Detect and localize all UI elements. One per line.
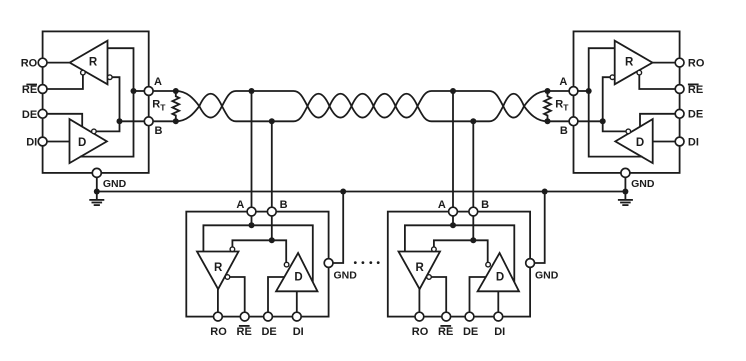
stub-right wire GND pin to ground bus — [535, 192, 545, 264]
svg-text:RE: RE — [237, 326, 252, 338]
twisted pair twist 5 — [374, 94, 396, 118]
svg-text:DI: DI — [26, 137, 37, 149]
right RT bottom junction — [545, 118, 551, 124]
svg-text:R: R — [415, 262, 424, 274]
stub-left wire B net (inverting input / driver inverting output) — [232, 240, 286, 262]
right wire node B to B net — [578, 120, 603, 122]
svg-text:B: B — [481, 199, 489, 211]
left pin A — [144, 87, 153, 96]
twisted pair twist 7 — [503, 94, 524, 118]
right receiver enable bubble — [637, 70, 642, 75]
twisted pair right fan-in — [524, 91, 548, 121]
svg-text:DE: DE — [688, 109, 703, 121]
stub-right node A junction — [450, 222, 456, 228]
stub-right ground bus junction — [542, 189, 548, 195]
stub-left pin A — [247, 207, 256, 216]
stub-right wire bus A tap — [452, 91, 454, 207]
svg-text:RE: RE — [22, 84, 37, 96]
svg-text:DE: DE — [463, 326, 478, 338]
stub-right bus A tap junction — [450, 88, 456, 94]
stub-right driver D — [478, 253, 519, 291]
ground bus wire — [97, 191, 626, 193]
stub-left receiver R — [197, 252, 239, 290]
svg-text:GND: GND — [535, 269, 559, 281]
twisted pair twist 6 — [396, 94, 418, 118]
svg-text:D: D — [78, 137, 86, 149]
stub-left wire DE to driver enable — [268, 277, 284, 312]
stub-right receiver inverting input bubble — [432, 247, 437, 252]
stub-left pin GND — [324, 259, 333, 268]
stub-right wire DI to driver input — [497, 291, 499, 312]
stub-left driver D — [276, 253, 317, 291]
right pin DI — [675, 137, 684, 146]
svg-text:B: B — [155, 125, 163, 137]
stub-left transceiver box — [186, 212, 328, 317]
left termination resistor RT — [172, 91, 179, 121]
svg-text:GND: GND — [103, 178, 127, 190]
ellipsis (more stations) — [354, 261, 380, 264]
stub-left wire GND pin to ground bus — [333, 192, 343, 264]
right pin RO — [675, 58, 684, 67]
twisted pair twist 1 — [199, 94, 222, 118]
stub-right wire bus B tap — [472, 121, 474, 207]
right node B junction — [600, 118, 606, 124]
left driver inverting output bubble — [92, 129, 97, 134]
stub-left wire DI to driver input — [296, 291, 298, 312]
stub-left driver inverting output bubble — [284, 262, 289, 267]
left pin DE — [38, 109, 47, 118]
svg-text:A: A — [559, 76, 567, 88]
svg-text:B: B — [280, 199, 288, 211]
stub-right RE overline — [440, 325, 451, 327]
stub-right transceiver box — [388, 212, 530, 317]
left wire DE to driver enable — [43, 114, 83, 127]
left driver D — [70, 119, 107, 163]
stub-left pin DI — [292, 312, 301, 321]
svg-text:RO: RO — [21, 58, 38, 70]
svg-text:DE: DE — [22, 109, 37, 121]
stub-left pin B — [267, 207, 276, 216]
stub-right receiver R — [399, 252, 441, 290]
svg-text:B: B — [560, 125, 568, 137]
stub-left wire bus B tap — [271, 121, 273, 207]
right wire RO to receiver output — [653, 62, 680, 64]
left wire node A to receiver input — [134, 90, 145, 92]
twisted pair opening at second stub — [418, 91, 504, 121]
left earth ground symbol — [89, 200, 104, 205]
stub-left wire RO to receiver output — [217, 289, 219, 312]
svg-text:DI: DI — [293, 326, 304, 338]
twisted pair twist 3 — [330, 94, 352, 118]
stub-left node B junction — [269, 237, 275, 243]
stub-left wire A net (receiver input / driver output) — [203, 225, 312, 282]
stub-right pin GND — [526, 259, 535, 268]
right wire RE to receiver enable — [639, 75, 679, 89]
svg-text:DI: DI — [494, 326, 505, 338]
stub-right pin DE — [465, 312, 474, 321]
right node A junction — [586, 88, 592, 94]
stub-left receiver inverting input bubble — [230, 247, 235, 252]
stub-right node B junction — [470, 237, 476, 243]
right termination resistor RT — [544, 91, 551, 121]
right wire DI to driver input — [653, 141, 680, 143]
stub-left bus B tap junction — [269, 118, 275, 124]
left receiver inverting input bubble — [108, 75, 113, 80]
stub-left wire RE to receiver enable — [230, 277, 245, 312]
svg-text:D: D — [636, 137, 644, 149]
right wire A net (receiver input / driver output) — [589, 48, 643, 156]
svg-text:R: R — [214, 262, 223, 274]
svg-text:GND: GND — [631, 178, 655, 190]
right receiver R — [615, 41, 653, 85]
svg-text:D: D — [496, 272, 504, 284]
left pin GND — [92, 168, 101, 177]
left wire GND pin to ground bus — [96, 177, 98, 200]
svg-text:RO: RO — [412, 326, 429, 338]
twisted pair left fan-out — [176, 91, 200, 121]
svg-text:RO: RO — [688, 57, 705, 69]
right pin B — [569, 117, 578, 126]
right ground bus junction — [622, 189, 628, 195]
stub-left pin DE — [264, 312, 273, 321]
stub-right wire RO to receiver output — [418, 289, 420, 312]
stub-right pin RO — [415, 312, 424, 321]
right pin DE — [675, 109, 684, 118]
right receiver inverting input bubble — [610, 75, 615, 80]
stub-right wire pin B down to B net — [472, 216, 474, 240]
left wire node B to B net — [120, 120, 145, 122]
left receiver R — [70, 41, 108, 85]
twisted pair twist 4 — [352, 94, 374, 118]
right pin A — [569, 87, 578, 96]
svg-text:R: R — [625, 57, 634, 69]
stub-left ground bus junction — [340, 189, 346, 195]
stub-right bus B tap junction — [470, 118, 476, 124]
left pin B — [144, 117, 153, 126]
svg-text:R: R — [89, 57, 98, 69]
left transceiver box — [43, 31, 149, 173]
twisted pair opening at first stub — [222, 91, 308, 121]
right wire node A to receiver input — [578, 90, 589, 92]
right wire B net (inverting input / driver inverting output) — [603, 77, 626, 131]
wire left pin B to RT node — [153, 120, 176, 122]
svg-text:RT: RT — [555, 99, 569, 113]
left wire DI to driver input — [43, 141, 70, 143]
stub-left wire pin A down to A net — [251, 216, 253, 225]
svg-text:A: A — [236, 199, 244, 211]
stub-left bus A tap junction — [249, 88, 255, 94]
left wire A net (receiver input / driver output) — [80, 48, 134, 156]
svg-text:GND: GND — [334, 269, 358, 281]
svg-text:DE: DE — [261, 326, 276, 338]
stub-left pin RE — [240, 312, 249, 321]
svg-text:DI: DI — [688, 136, 699, 148]
stub-right wire A net (receiver input / driver output) — [405, 225, 514, 282]
svg-text:RT: RT — [152, 99, 166, 113]
twisted pair twist 2 — [308, 94, 330, 118]
left ground bus junction — [94, 189, 100, 195]
right RE overline — [688, 83, 699, 85]
stub-left receiver enable bubble — [225, 275, 230, 280]
svg-text:A: A — [154, 76, 162, 88]
stub-right wire pin A down to A net — [452, 216, 454, 225]
stub-right pin A — [449, 207, 458, 216]
svg-text:RE: RE — [688, 84, 703, 96]
right pin GND — [621, 168, 630, 177]
stub-right pin B — [469, 207, 478, 216]
left wire RE to receiver enable — [43, 75, 83, 89]
svg-text:A: A — [438, 199, 446, 211]
stub-right wire RE to receiver enable — [431, 277, 446, 312]
left receiver enable bubble — [81, 70, 86, 75]
stub-left pin RO — [214, 312, 223, 321]
stub-left node A junction — [249, 222, 255, 228]
stub-right wire B net (inverting input / driver inverting output) — [434, 240, 488, 262]
right earth ground symbol — [618, 200, 633, 205]
stub-left wire bus A tap — [251, 91, 253, 207]
right wire GND pin to ground bus — [624, 177, 626, 200]
left wire RO to receiver output — [43, 62, 70, 64]
wire left pin A to RT node — [153, 90, 176, 92]
left RT bottom junction — [173, 118, 179, 124]
left node A junction — [131, 88, 137, 94]
stub-right pin DI — [494, 312, 503, 321]
stub-right receiver enable bubble — [427, 275, 432, 280]
left pin RE — [38, 85, 47, 94]
wire right pin B to RT node — [548, 120, 570, 122]
left pin DI — [38, 137, 47, 146]
wire right pin A to RT node — [548, 90, 570, 92]
stub-left RE overline — [239, 325, 250, 327]
stub-right driver inverting output bubble — [486, 262, 491, 267]
svg-text:D: D — [294, 272, 302, 284]
left RE overline — [26, 84, 37, 86]
left pin RO — [38, 58, 47, 67]
right driver inverting output bubble — [626, 129, 631, 134]
right transceiver box — [574, 31, 680, 173]
right wire DE to driver enable — [640, 114, 680, 127]
svg-text:RO: RO — [210, 326, 227, 338]
svg-text:RE: RE — [438, 326, 453, 338]
left RT top junction — [173, 88, 179, 94]
stub-right wire DE to driver enable — [470, 277, 486, 312]
left wire B net (inverting input / driver inverting output) — [96, 77, 119, 131]
stub-right pin RE — [442, 312, 451, 321]
right pin RE — [675, 85, 684, 94]
left node B junction — [117, 118, 123, 124]
right RT top junction — [545, 88, 551, 94]
stub-left wire pin B down to B net — [271, 216, 273, 240]
right driver D — [615, 119, 652, 163]
